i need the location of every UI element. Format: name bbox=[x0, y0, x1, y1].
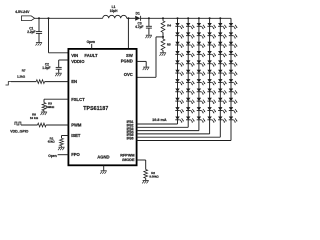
node LED string 1 junction bbox=[176, 17, 178, 19]
wire LED string 2 bbox=[187, 18, 189, 127]
wire EN input bbox=[11, 81, 36, 83]
PWM square-wave input symbol bbox=[15, 122, 21, 125]
svg-text:PGND: PGND bbox=[121, 58, 133, 63]
svg-text:FSLCT: FSLCT bbox=[71, 97, 85, 102]
capacitor C1 bbox=[36, 32, 42, 34]
svg-text:FPO: FPO bbox=[71, 152, 80, 157]
wire R2 to ground bbox=[145, 178, 147, 180]
label TPS61187 bbox=[83, 106, 108, 112]
wire RFPWM to R2 bbox=[137, 160, 146, 170]
pin label VDDIO bbox=[71, 59, 85, 64]
svg-text:10µH: 10µH bbox=[110, 9, 118, 13]
inductor L1 bbox=[103, 15, 127, 18]
pin FAULT tick bbox=[91, 44, 93, 49]
node LED string 2 junction bbox=[187, 17, 189, 19]
ground C1 bbox=[36, 43, 43, 46]
wire IFB6 to string 6 bbox=[137, 140, 231, 142]
ground R2 bbox=[142, 180, 149, 183]
pin label PGND bbox=[121, 58, 133, 63]
wire VDDIO to C2 bbox=[59, 60, 69, 67]
label L1 bbox=[110, 5, 118, 13]
label R4 bbox=[167, 23, 171, 27]
label Open (FPO) bbox=[48, 154, 56, 158]
resistor R2 bbox=[144, 170, 148, 179]
LED string 4 (11 white LEDs) bbox=[207, 23, 216, 123]
svg-text:2.2µF: 2.2µF bbox=[27, 30, 35, 34]
wire IFB3 to string 3 bbox=[137, 130, 199, 132]
svg-text:D1: D1 bbox=[136, 12, 140, 16]
wire OVC sense bbox=[137, 37, 163, 77]
pin label VIN bbox=[71, 53, 78, 58]
resistor R5 bbox=[161, 39, 165, 50]
pin label IFB2 bbox=[127, 124, 134, 128]
resistor R1 bbox=[60, 138, 64, 146]
input connector bbox=[22, 16, 35, 21]
wire IFB1 to string 1 bbox=[137, 123, 178, 125]
svg-text:OVC: OVC bbox=[124, 72, 133, 77]
wire C3 drop bbox=[148, 18, 150, 26]
wire FPO bbox=[58, 154, 69, 156]
svg-text:1.2kΩ: 1.2kΩ bbox=[17, 75, 26, 79]
wire VIN drop bbox=[49, 18, 69, 53]
label R1 bbox=[48, 136, 56, 143]
pin label RFPWM bbox=[120, 153, 134, 157]
node C3 junction bbox=[148, 17, 150, 19]
wire FSLCT to R3 bbox=[44, 99, 68, 102]
svg-text:9.09kΩ: 9.09kΩ bbox=[149, 175, 159, 179]
svg-text:VDDIO: VDDIO bbox=[71, 59, 85, 64]
LED string 6 (11 white LEDs) bbox=[229, 23, 238, 123]
EN step input symbol bbox=[6, 82, 12, 85]
label C2 bbox=[42, 62, 50, 70]
svg-text:SW: SW bbox=[126, 53, 133, 58]
svg-text:/MODE: /MODE bbox=[122, 158, 135, 162]
wire LED string 3 bbox=[198, 18, 200, 130]
wire LED string 4 bbox=[209, 18, 211, 134]
label R3 bbox=[46, 102, 55, 109]
capacitor C3 bbox=[146, 26, 152, 28]
resistor R4 bbox=[161, 21, 165, 33]
ground AGND bbox=[100, 171, 107, 174]
wire L1 to D1 bbox=[127, 17, 136, 19]
wire D1 to LED rail bbox=[141, 17, 231, 19]
svg-text:IFB6: IFB6 bbox=[127, 137, 134, 141]
node LED string 5 junction bbox=[219, 17, 221, 19]
label R8 bbox=[30, 112, 39, 120]
svg-text:10 kΩ: 10 kΩ bbox=[30, 116, 39, 120]
label Open (FAULT) bbox=[87, 40, 95, 44]
ground R3 bbox=[41, 112, 48, 115]
label D1 bbox=[136, 12, 140, 16]
svg-text:R5: R5 bbox=[167, 42, 171, 46]
node OVC divider junction bbox=[162, 36, 164, 38]
wire R1 to ground bbox=[61, 146, 63, 147]
resistor R3 bbox=[42, 103, 46, 111]
wire input rail to L1 bbox=[35, 17, 103, 19]
wire C3 to ground bbox=[148, 28, 150, 35]
svg-text:19.8 mA: 19.8 mA bbox=[152, 118, 167, 122]
node VIN junction bbox=[47, 17, 49, 19]
wire LED string 5 bbox=[219, 18, 221, 137]
pin label FAULT bbox=[84, 53, 98, 58]
svg-text:4.5V-24V: 4.5V-24V bbox=[15, 10, 30, 14]
svg-text:4.7µF: 4.7µF bbox=[135, 25, 143, 29]
svg-text:R7: R7 bbox=[22, 68, 26, 72]
pin label IFB3 bbox=[127, 127, 134, 131]
svg-text:Open: Open bbox=[48, 154, 56, 158]
wire PGND bbox=[137, 61, 147, 66]
pin label PWM bbox=[71, 122, 82, 127]
pin label IFB6 bbox=[127, 137, 134, 141]
wire PWM input bbox=[21, 124, 38, 126]
ground C2 bbox=[55, 73, 62, 76]
pin label OVC bbox=[124, 72, 133, 77]
diode D1 bbox=[135, 16, 140, 21]
LED string 2 (11 white LEDs) bbox=[186, 23, 195, 123]
svg-text:1.0µF: 1.0µF bbox=[42, 66, 50, 70]
pin label FPO bbox=[71, 152, 80, 157]
pin label EN bbox=[71, 79, 77, 84]
LED string 3 (11 white LEDs) bbox=[197, 23, 206, 123]
pin label IFB4 bbox=[127, 130, 134, 134]
pin label AGND bbox=[97, 154, 109, 159]
wire ISET to R1 bbox=[62, 136, 69, 139]
wire IFB2 to string 2 bbox=[137, 126, 189, 128]
svg-text:AGND: AGND bbox=[97, 154, 109, 159]
label C3 bbox=[135, 22, 143, 29]
pin label MODE bbox=[122, 158, 135, 162]
wire R7 to EN pin bbox=[45, 81, 69, 83]
wire C1 drop bbox=[38, 18, 40, 31]
op IC U1 TPS61187 body bbox=[68, 49, 136, 165]
svg-text:499kΩ: 499kΩ bbox=[46, 105, 55, 109]
LED string 1 (11 white LEDs) bbox=[175, 23, 184, 123]
ground PGND bbox=[143, 67, 150, 70]
svg-text:PWM: PWM bbox=[71, 122, 82, 127]
svg-text:ISET: ISET bbox=[71, 133, 81, 138]
svg-text:Open: Open bbox=[87, 40, 95, 44]
svg-text:R4: R4 bbox=[167, 23, 171, 27]
resistor R8 bbox=[38, 123, 47, 127]
wire R5 to ground bbox=[162, 50, 164, 52]
label C1 bbox=[27, 26, 35, 34]
svg-text:FAULT: FAULT bbox=[84, 53, 98, 58]
pin label IFB5 bbox=[127, 133, 134, 137]
wire IFB5 to string 5 bbox=[137, 136, 221, 138]
wire SW riser bbox=[127, 18, 129, 49]
node LED string 4 junction bbox=[209, 17, 211, 19]
ground C3 bbox=[145, 35, 152, 38]
node R4 junction bbox=[162, 17, 164, 19]
node C1 junction bbox=[38, 17, 40, 19]
label R5 bbox=[167, 42, 171, 46]
wire C2 to ground bbox=[58, 69, 60, 73]
label R7 bbox=[17, 68, 26, 78]
svg-text:62kΩ: 62kΩ bbox=[48, 140, 56, 144]
pin label FSLCT bbox=[71, 97, 85, 102]
wire C1 to ground bbox=[38, 33, 40, 42]
resistor R7 bbox=[36, 80, 44, 84]
node SW junction bbox=[127, 17, 129, 19]
wire R4 to R5 bbox=[162, 32, 164, 39]
capacitor C2 bbox=[56, 67, 62, 69]
label R2 bbox=[149, 171, 159, 179]
ground R5 bbox=[160, 53, 167, 56]
wire rail to R4 bbox=[162, 18, 164, 21]
svg-text:TPS61187: TPS61187 bbox=[83, 106, 108, 112]
svg-text:RFPWM: RFPWM bbox=[120, 153, 134, 157]
wire R8 to PWM pin bbox=[46, 124, 68, 126]
input supply label 4.5V-24V bbox=[15, 10, 30, 14]
svg-text:VIN: VIN bbox=[71, 53, 78, 58]
wire AGND bbox=[103, 165, 105, 170]
svg-text:VDD_GPIO: VDD_GPIO bbox=[10, 129, 28, 133]
LED string 5 (11 white LEDs) bbox=[218, 23, 227, 123]
label string current 19.8 mA bbox=[152, 118, 167, 122]
wire IFB4 to string 4 bbox=[137, 133, 210, 135]
node LED string 3 junction bbox=[198, 17, 200, 19]
pin label SW bbox=[126, 53, 133, 58]
pin label IFB1 bbox=[127, 120, 134, 124]
ground R1 bbox=[58, 147, 65, 150]
wire LED string 6 bbox=[230, 18, 232, 140]
label VDD_GPIO bbox=[10, 129, 28, 133]
wire LED string 1 bbox=[177, 18, 179, 124]
svg-text:EN: EN bbox=[71, 79, 77, 84]
wire R3 to ground bbox=[43, 111, 45, 112]
pin label ISET bbox=[71, 133, 81, 138]
